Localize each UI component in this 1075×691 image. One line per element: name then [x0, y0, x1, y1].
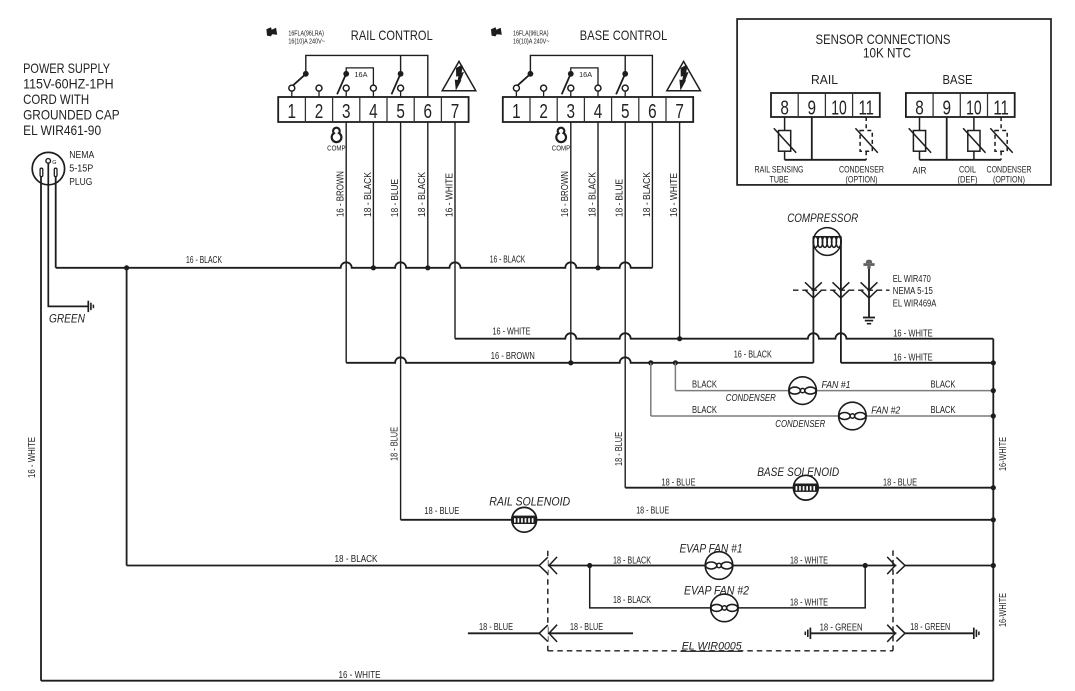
ground symbol (green left): [805, 628, 810, 639]
contact terminal circle above terminal 5: [622, 85, 628, 97]
svg-text:18 - BLUE: 18 - BLUE: [662, 477, 696, 488]
compressor thermal protector icon (COMP) below terminal 3: [556, 128, 566, 142]
svg-text:BLACK: BLACK: [931, 405, 956, 416]
svg-text:6: 6: [648, 100, 657, 123]
switch blade S1 (BASE CONTROL): [517, 75, 529, 85]
svg-text:16-WHITE: 16-WHITE: [998, 437, 1009, 471]
svg-text:16 - WHITE: 16 - WHITE: [493, 327, 531, 338]
switch contact pivot node (terminal 1 switch): [303, 71, 309, 77]
contact terminal circle above terminal 4: [595, 85, 601, 97]
wire: RAIL terminal 7 drop 16-WHITE: [454, 122, 456, 339]
svg-text:16 - BROWN: 16 - BROWN: [560, 171, 571, 217]
warning triangle (high voltage) above terminal 7: [667, 61, 701, 90]
sensor connections enclosure box: [737, 19, 1051, 185]
svg-text:18 - GREEN: 18 - GREEN: [820, 622, 863, 633]
svg-text:10: 10: [966, 97, 982, 119]
svg-text:COMP: COMP: [327, 143, 346, 152]
junction node rail solenoid/right bus: [991, 517, 996, 522]
svg-text:3: 3: [342, 100, 351, 123]
svg-text:18 - GREEN: 18 - GREEN: [910, 622, 950, 633]
svg-text:9: 9: [808, 97, 817, 119]
svg-text:18 - BLUE: 18 - BLUE: [614, 432, 625, 466]
junction node RAIL-6: [425, 265, 430, 270]
junction node RAIL-4: [371, 265, 376, 270]
svg-text:18 - WHITE: 18 - WHITE: [790, 555, 828, 566]
svg-text:RAIL SOLENOID: RAIL SOLENOID: [489, 496, 570, 508]
NTC sensor rail condenser option (terminal 11): [855, 117, 877, 160]
switch contact pivot node (terminal 1 switch): [528, 71, 534, 77]
NEMA 5-15 plug cap icon: [863, 260, 874, 269]
compressor thermal protector icon (COMP) below terminal 3: [332, 128, 342, 142]
svg-text:5: 5: [621, 100, 630, 123]
label CONDENSER (OPTION) base: [987, 165, 1032, 185]
svg-text:EL WIR470: EL WIR470: [893, 274, 931, 285]
svg-text:18 - BLACK: 18 - BLACK: [613, 555, 651, 566]
svg-text:7: 7: [451, 100, 460, 123]
disconnect plug chevrons (right lead): [833, 282, 850, 298]
svg-text:18 - BLUE: 18 - BLUE: [570, 622, 603, 633]
svg-text:4: 4: [594, 100, 603, 123]
contact terminal circle above terminal 1: [513, 85, 519, 97]
switch contact pivot node (terminal 5 switch): [622, 71, 628, 77]
wire: RAIL terminal 5 drop 18-BLUE: [400, 122, 402, 520]
wire: RAIL terminal 6 drop 18-BLACK: [427, 122, 429, 268]
svg-text:16(10)A 240V~: 16(10)A 240V~: [288, 37, 325, 46]
svg-text:CORD WITH: CORD WITH: [23, 92, 89, 107]
junction node BASE-7 on white row: [677, 336, 682, 341]
wire: 18-BLUE stub: [468, 632, 633, 634]
svg-text:16 - WHITE: 16 - WHITE: [893, 352, 933, 363]
svg-text:18 - BLACK: 18 - BLACK: [613, 595, 651, 606]
svg-text:18 - BLUE: 18 - BLUE: [883, 477, 917, 488]
svg-text:RAIL CONTROL: RAIL CONTROL: [351, 27, 433, 43]
wire: plug neutral down left side (16-WHITE): [40, 177, 42, 681]
svg-text:EL WIR0005: EL WIR0005: [682, 640, 743, 652]
junction node fan1/right bus: [991, 388, 996, 393]
NTC sensor base coil defrost sensor (terminal 10): [963, 117, 985, 160]
NTC sensor rail sensing tube (terminal 8): [774, 117, 796, 160]
solenoid coil BASE SOLENOID: [793, 475, 818, 500]
wire: base sensor common (terminal 9): [946, 117, 948, 160]
fuse link 16A bracket (terminals 3-4): [571, 68, 598, 85]
rating certification mark icon: [491, 27, 502, 36]
svg-text:BLACK: BLACK: [692, 380, 717, 391]
svg-text:2: 2: [315, 100, 324, 123]
wire: 18-GREEN bonding run: [810, 632, 973, 634]
svg-text:18 - BLACK: 18 - BLACK: [587, 172, 598, 217]
BASE CONTROL terminal strip (terminals 1-7): [503, 97, 693, 123]
wire: 16-BLACK distribution row: [56, 267, 127, 269]
wire: base solenoid row 18-BLUE: [625, 487, 993, 489]
contact terminal circle above terminal 5: [398, 85, 404, 97]
junction node on 16-BLACK row (evap feed): [124, 265, 129, 270]
switch blade S5 (BASE CONTROL): [616, 75, 625, 95]
wire: BASE terminal 3 drop 16-BROWN: [570, 122, 572, 363]
svg-text:9: 9: [942, 97, 951, 119]
wire: compressor right lead: [840, 237, 842, 363]
svg-text:COIL: COIL: [959, 165, 976, 175]
svg-text:EL WIR469A: EL WIR469A: [893, 298, 937, 309]
svg-text:RAIL SENSING: RAIL SENSING: [755, 165, 804, 175]
wire: ground lead: [868, 269, 870, 318]
svg-text:(DEF): (DEF): [958, 175, 978, 185]
svg-text:18 - BLUE: 18 - BLUE: [390, 179, 401, 217]
junction node fan1 feed: [673, 360, 678, 365]
cable connector arrow (blue stub): [539, 625, 557, 642]
junction node base solenoid/right bus: [991, 485, 996, 490]
contact terminal circle above terminal 3: [568, 85, 574, 97]
svg-text:5-15P: 5-15P: [69, 163, 93, 174]
junction node evap fan2 tap: [587, 563, 592, 568]
svg-text:BASE SOLENOID: BASE SOLENOID: [757, 467, 839, 479]
evap fan motor EVAP FAN #1: [705, 552, 733, 580]
contact terminal circle above terminal 2: [541, 85, 547, 97]
svg-text:18 - BLUE: 18 - BLUE: [390, 427, 401, 461]
fuse link 16A bracket (terminals 3-4): [346, 68, 373, 85]
wire: fan2 feed vertical: [650, 363, 652, 416]
svg-text:BLACK: BLACK: [931, 380, 956, 391]
svg-text:16 - WHITE: 16 - WHITE: [27, 437, 38, 478]
wire: fan1 feed vertical: [674, 363, 676, 391]
wire: condenser fan 1 row: [675, 390, 993, 392]
svg-text:16(10)A 240V~: 16(10)A 240V~: [513, 37, 550, 46]
wire: 16-WHITE row from RAIL terminal 7 to right bus: [455, 333, 993, 339]
svg-text:7: 7: [675, 100, 684, 123]
label RAIL SENSING TUBE: [755, 165, 804, 185]
junction node fan2/right bus: [991, 413, 996, 418]
svg-text:8: 8: [915, 97, 924, 119]
svg-text:4: 4: [369, 100, 378, 123]
junction node evap white join: [863, 563, 868, 568]
svg-text:18 - BLACK: 18 - BLACK: [642, 172, 653, 217]
svg-text:18 - BLUE: 18 - BLUE: [424, 506, 459, 517]
cable connector arrow (evap row right): [887, 557, 905, 574]
svg-text:NEMA: NEMA: [69, 150, 94, 161]
wire: evap fan 2 branch: [590, 566, 866, 608]
ground symbol (green right): [974, 628, 979, 639]
RAIL CONTROL terminal strip (terminals 1-7): [278, 97, 468, 123]
svg-text:16-WHITE: 16-WHITE: [998, 593, 1009, 627]
label COIL (DEF): [958, 165, 978, 185]
svg-text:NEMA 5-15: NEMA 5-15: [893, 286, 933, 297]
junction node BASE-3 on brown row: [568, 360, 573, 365]
switch blade S5 (RAIL CONTROL): [392, 75, 401, 95]
svg-text:BASE: BASE: [943, 72, 973, 87]
svg-text:10K NTC: 10K NTC: [863, 44, 911, 60]
svg-text:16 - WHITE: 16 - WHITE: [669, 173, 680, 217]
disconnect plug chevrons (ground lead): [861, 282, 878, 298]
svg-text:16 - WHITE: 16 - WHITE: [339, 670, 381, 681]
svg-text:G: G: [52, 160, 56, 166]
svg-text:COMP: COMP: [552, 143, 571, 152]
wire: condenser fan 2 row: [651, 415, 994, 417]
svg-text:18 - WHITE: 18 - WHITE: [790, 597, 828, 608]
svg-text:FAN #1: FAN #1: [822, 379, 851, 391]
svg-text:11: 11: [858, 97, 874, 119]
evap fan motor EVAP FAN #2: [711, 594, 739, 622]
wire: right 16-WHITE bus vertical: [992, 339, 994, 681]
NTC sensor base condenser option (terminal 11): [990, 117, 1012, 160]
ground symbol (green wire): [88, 301, 93, 312]
svg-text:5: 5: [396, 100, 405, 123]
cable connector arrow (evap row left): [539, 557, 557, 574]
svg-text:EVAP FAN #2: EVAP FAN #2: [684, 585, 750, 597]
svg-text:EVAP FAN #1: EVAP FAN #1: [680, 543, 743, 555]
svg-text:1: 1: [288, 100, 297, 123]
svg-text:AIR: AIR: [913, 166, 927, 176]
svg-text:BASE CONTROL: BASE CONTROL: [580, 27, 668, 43]
disconnect plug chevrons (left lead): [805, 282, 822, 298]
switch contact pivot node (terminal 5 switch): [398, 71, 404, 77]
wire: RAIL terminal 4 drop 18-BLACK: [372, 122, 374, 268]
warning triangle (high voltage) above terminal 7: [442, 61, 476, 90]
junction node fan2 feed: [648, 360, 653, 365]
svg-text:CONDENSER: CONDENSER: [775, 418, 825, 430]
dashed disconnect line: [793, 289, 890, 291]
svg-text:18 - BLUE: 18 - BLUE: [636, 506, 669, 517]
svg-text:18 - BLUE: 18 - BLUE: [615, 179, 626, 217]
svg-text:BLACK: BLACK: [692, 405, 717, 416]
sensor terminal strip BASE (terminals 8-11): [906, 93, 1015, 119]
svg-text:16 - BROWN: 16 - BROWN: [491, 351, 535, 362]
wire: BASE CONTROL supply rail to switches: [530, 55, 652, 97]
svg-text:RAIL: RAIL: [811, 72, 838, 87]
svg-text:POWER SUPPLY: POWER SUPPLY: [23, 61, 110, 76]
svg-text:GREEN: GREEN: [49, 314, 86, 326]
label NEMA 5-15P PLUG: [69, 150, 94, 188]
svg-text:8: 8: [780, 97, 789, 119]
switch contact pivot node (terminal 3 switch): [343, 71, 349, 77]
junction node white bus / compressor return: [991, 360, 996, 365]
wire: rail sensor common (terminal 9): [811, 117, 813, 160]
svg-text:18 - BLACK: 18 - BLACK: [363, 172, 374, 217]
solenoid coil RAIL SOLENOID: [512, 507, 537, 532]
wire: 16-WHITE compressor return to right bus: [841, 362, 993, 364]
svg-text:PLUG: PLUG: [69, 177, 92, 188]
label contact rating: [288, 28, 325, 45]
condenser fan motor FAN #1: [789, 377, 817, 405]
condenser fan motor FAN #2: [839, 402, 867, 430]
wire: BASE terminal 5 drop 18-BLUE: [624, 122, 626, 488]
svg-text:3: 3: [567, 100, 576, 123]
switch blade S3 (RAIL CONTROL): [337, 75, 346, 95]
switch blade S1 (RAIL CONTROL): [293, 75, 305, 85]
svg-text:CONDENSER: CONDENSER: [839, 165, 884, 175]
junction node BASE-4: [595, 265, 600, 270]
svg-text:GROUNDED CAP: GROUNDED CAP: [23, 108, 120, 123]
wire: evap fan 1 row: [127, 565, 994, 567]
svg-text:16 - BLACK: 16 - BLACK: [186, 255, 222, 266]
wire: plug hot lead down to 16-BLACK row: [55, 177, 57, 268]
svg-text:18 - BLACK: 18 - BLACK: [417, 172, 428, 217]
svg-text:2: 2: [539, 100, 548, 123]
svg-text:10: 10: [831, 97, 847, 119]
wire: base sensor bottom bus: [920, 159, 1002, 161]
wire: RAIL CONTROL supply rail to switches: [306, 55, 428, 97]
svg-text:(OPTION): (OPTION): [846, 175, 878, 185]
wire: rail solenoid row 18-BLUE: [401, 519, 994, 521]
svg-text:FAN #2: FAN #2: [871, 404, 900, 416]
svg-text:16A: 16A: [579, 70, 592, 79]
cable connector arrow (green right): [887, 625, 905, 642]
svg-text:18 - BLACK: 18 - BLACK: [335, 554, 378, 565]
wire: compressor left lead: [812, 237, 814, 363]
compressor motor M1: [813, 228, 842, 256]
svg-text:18 - BLUE: 18 - BLUE: [479, 622, 513, 633]
svg-text:16 - WHITE: 16 - WHITE: [893, 328, 933, 339]
switch blade S3 (BASE CONTROL): [562, 75, 571, 95]
label CONDENSER (OPTION) rail: [839, 165, 884, 185]
svg-text:16A: 16A: [355, 70, 368, 79]
svg-text:TUBE: TUBE: [770, 175, 789, 185]
svg-text:11: 11: [993, 97, 1009, 119]
switch contact pivot node (terminal 3 switch): [568, 71, 574, 77]
svg-text:16 - BLACK: 16 - BLACK: [734, 349, 772, 360]
label EL WIR470 / NEMA 5-15 / EL WIR469A: [893, 274, 937, 310]
wire: plug ground lead (GREEN): [48, 163, 88, 306]
label power supply description: [23, 61, 120, 138]
svg-text:115V-60HZ-1PH: 115V-60HZ-1PH: [23, 77, 114, 92]
ground symbol (compressor cord): [863, 318, 875, 324]
contact terminal circle above terminal 3: [343, 85, 349, 97]
svg-text:COMPRESSOR: COMPRESSOR: [787, 211, 858, 225]
svg-text:6: 6: [424, 100, 433, 123]
svg-text:(OPTION): (OPTION): [993, 175, 1025, 185]
wire: 16-BROWN row to compressor: [346, 357, 813, 362]
wire: BASE terminal 4 drop 18-BLACK: [597, 122, 599, 268]
underline EL WIR0005: [681, 650, 743, 652]
svg-text:CONDENSER: CONDENSER: [987, 165, 1032, 175]
wire: BASE terminal 7 drop 16-WHITE: [679, 122, 681, 339]
label contact rating: [513, 28, 550, 45]
NEMA 5-15P plug P1: [32, 152, 64, 184]
wire: bottom 16-WHITE run: [41, 680, 993, 682]
wire: RAIL terminal 3 drop 16-BROWN: [345, 122, 347, 363]
wire: 18-BLACK evap feed vertical: [126, 268, 128, 566]
NTC sensor base air sensor (terminal 8): [909, 117, 931, 160]
svg-text:CONDENSER: CONDENSER: [726, 392, 776, 404]
svg-text:16 - BLACK: 16 - BLACK: [490, 255, 526, 266]
junction node evap1/right bus: [991, 563, 996, 568]
svg-text:16 - WHITE: 16 - WHITE: [444, 173, 455, 217]
rating certification mark icon: [266, 27, 277, 36]
contact terminal circle above terminal 1: [289, 85, 295, 97]
contact terminal circle above terminal 4: [370, 85, 376, 97]
svg-text:1: 1: [512, 100, 521, 123]
sensor terminal strip RAIL (terminals 8-11): [771, 93, 880, 119]
svg-text:EL WIR461-90: EL WIR461-90: [23, 123, 101, 138]
wire: BASE terminal 6 drop 18-BLACK: [651, 122, 653, 268]
svg-text:16 - BROWN: 16 - BROWN: [336, 171, 347, 217]
cable harness EL WIR0005 dashed boundary: [548, 550, 893, 650]
contact terminal circle above terminal 2: [316, 85, 322, 97]
wire: rail sensor bottom bus: [785, 159, 867, 161]
